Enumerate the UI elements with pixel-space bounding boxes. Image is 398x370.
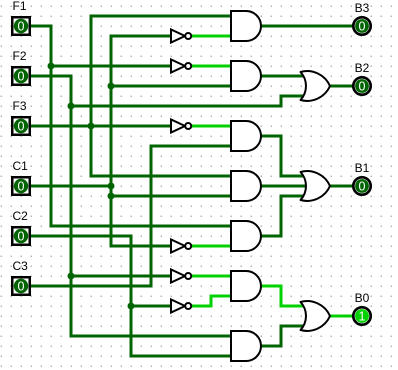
wire F2 pin to corner <box>31 75 71 78</box>
input pin F3 <box>12 117 30 135</box>
svg-text:C2: C2 <box>13 209 29 223</box>
svg-text:F1: F1 <box>13 0 27 13</box>
junction C1 node <box>108 183 115 190</box>
svg-text:0: 0 <box>18 70 25 84</box>
output pin B0 <box>353 307 370 324</box>
wire AND G7 output riser <box>280 326 283 346</box>
wire C1 trunk up <box>110 36 113 186</box>
output pin B2 <box>353 77 370 94</box>
wire C1 branch to AND G2 bottom input <box>111 85 231 88</box>
inverter U5 <box>171 300 191 313</box>
wire AND G3 output <box>261 135 281 138</box>
wire F3 to AND G4 top input <box>91 175 231 178</box>
OR gate O2 <box>301 171 331 201</box>
wire OR O3 output to pin B0 <box>330 315 352 318</box>
wire C1 to NOT6 input <box>111 245 171 248</box>
OR gate O1 <box>301 71 331 101</box>
AND gate G7 <box>231 331 261 361</box>
junction C1/G4 branch <box>108 193 115 200</box>
wire C1 pin to trunk <box>31 185 111 188</box>
wire F1 branch to NOT2 input <box>51 65 171 68</box>
svg-text:0: 0 <box>18 180 25 194</box>
AND gate G4 <box>231 171 261 201</box>
input pin C3 <box>12 277 30 295</box>
wire AND G5 output riser <box>280 196 283 236</box>
svg-text:F3: F3 <box>13 99 27 113</box>
input pin F2 <box>12 67 30 85</box>
inverter U2 <box>171 60 191 73</box>
wire F3 to AND G1 top input <box>91 15 231 18</box>
junction C1/G2 branch <box>108 83 115 90</box>
wire AND G7 output <box>261 345 281 348</box>
wire AND G6 output <box>261 285 281 288</box>
input pin C1 <box>12 177 30 195</box>
input pin C2 <box>12 227 30 245</box>
wire F3 pin to NOT3 input <box>31 125 171 128</box>
svg-text:0: 0 <box>18 20 25 34</box>
inverter U3 <box>171 120 191 133</box>
wire AND G6 output dropper <box>280 286 283 306</box>
output pin B1 <box>353 177 370 194</box>
wire AND G4 output into OR O2 middle input <box>261 185 307 188</box>
wire NOT5 output <box>191 305 211 308</box>
wire AND G7 stub into OR O3 bottom input <box>281 325 307 328</box>
wire F1 pin to corner <box>31 25 51 28</box>
wire AND G5 output <box>261 235 281 238</box>
wire C2 pin to corner <box>31 235 131 238</box>
svg-text:B2: B2 <box>355 61 370 75</box>
wire C2 trunk <box>130 236 133 356</box>
svg-text:0: 0 <box>359 20 366 34</box>
wire NOT4 output to AND G6 top input <box>191 275 231 278</box>
junction F1/NOT2 branch <box>48 63 55 70</box>
svg-text:1: 1 <box>359 310 366 324</box>
wire NOT3 output to AND G3 top input <box>191 125 231 128</box>
inverter U1 <box>171 30 191 43</box>
OR gate O3 <box>301 301 331 331</box>
wire NOT2 output to AND G2 top input <box>191 65 231 68</box>
wire F2 branch riser <box>280 96 283 106</box>
wire AND G1 output to pin B3 <box>261 25 352 28</box>
inverter U4 <box>171 270 191 283</box>
wire C3 to AND G3 bottom input <box>151 145 231 148</box>
wire F3 trunk down <box>90 126 93 176</box>
wire F3 trunk up <box>90 16 93 126</box>
wire C3 trunk up <box>150 146 153 286</box>
svg-text:C3: C3 <box>13 259 29 273</box>
svg-text:0: 0 <box>18 280 25 294</box>
wire F1 to AND G5 top input <box>51 225 231 228</box>
inverter U6 <box>171 240 191 253</box>
svg-text:0: 0 <box>18 230 25 244</box>
wire C2 to AND G7 bottom input <box>131 355 231 358</box>
output pin B3 <box>353 17 370 34</box>
wire NOT5 output to AND G6 bottom input <box>211 295 231 298</box>
wire AND G2 output into OR O1 upper input <box>261 75 307 78</box>
wire F1 trunk <box>50 26 53 226</box>
wire AND G3 output dropper <box>280 136 283 176</box>
svg-text:0: 0 <box>18 120 25 134</box>
wire OR O2 output to pin B1 <box>330 185 352 188</box>
wire F2 to AND G7 top input <box>71 335 231 338</box>
wire F2 branch stub into OR O1 lower input <box>281 95 307 98</box>
junction F2/O1 branch <box>68 103 75 110</box>
svg-text:0: 0 <box>359 180 366 194</box>
wire AND G6 stub into OR O3 top input <box>281 305 307 308</box>
wire C1 trunk down <box>110 186 113 246</box>
wire C1 branch to AND G4 bottom input <box>111 195 231 198</box>
AND gate G1 <box>231 11 261 41</box>
wire OR O1 output to pin B2 <box>330 85 352 88</box>
wire AND G5 stub into OR O2 bottom input <box>281 195 307 198</box>
svg-text:B0: B0 <box>355 291 370 305</box>
AND gate G5 <box>231 221 261 251</box>
AND gate G3 <box>231 121 261 151</box>
wire F2 trunk <box>70 76 73 336</box>
input pin F1 <box>12 17 30 35</box>
svg-text:F2: F2 <box>13 49 27 63</box>
svg-text:B3: B3 <box>355 1 370 15</box>
svg-text:0: 0 <box>359 80 366 94</box>
wire AND G3 stub into OR O2 top input <box>281 175 307 178</box>
junction F2/NOT4 branch <box>68 273 75 280</box>
wire C1 to NOT1 input <box>111 35 171 38</box>
svg-text:C1: C1 <box>13 159 29 173</box>
wire C3 pin to corner <box>31 285 151 288</box>
AND gate G6 <box>231 271 261 301</box>
AND gate G2 <box>231 61 261 91</box>
junction F3 node <box>88 123 95 130</box>
wire F2 branch toward OR O1 <box>71 105 281 108</box>
svg-text:B1: B1 <box>355 161 370 175</box>
wire NOT5 output riser <box>210 296 213 306</box>
junction C2/NOT5 branch <box>128 303 135 310</box>
wire NOT6 output to AND G5 bottom input <box>191 245 231 248</box>
wire NOT1 output to AND G1 bottom input <box>191 35 231 38</box>
wire F2 branch to NOT4 input <box>71 275 171 278</box>
wire C2 branch to NOT5 input <box>131 305 171 308</box>
